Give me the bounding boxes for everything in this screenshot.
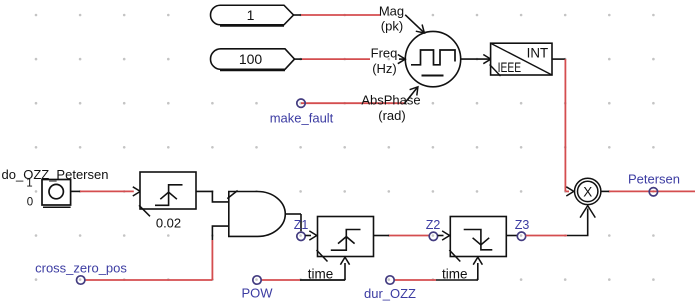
svg-text:time: time	[308, 266, 334, 281]
svg-text:make_fault: make_fault	[270, 111, 334, 126]
svg-text:Z3: Z3	[515, 218, 530, 232]
svg-text:IEEE: IEEE	[498, 59, 522, 75]
svg-text:(pk): (pk)	[381, 19, 403, 34]
svg-text:1: 1	[26, 178, 32, 190]
svg-text:do_OZZ_Petersen: do_OZZ_Petersen	[2, 167, 109, 182]
svg-text:POW: POW	[241, 286, 273, 301]
svg-text:(Hz): (Hz)	[372, 61, 397, 76]
svg-text:time: time	[442, 266, 468, 281]
svg-text:100: 100	[239, 51, 263, 67]
svg-text:(rad): (rad)	[378, 108, 405, 123]
svg-text:X: X	[583, 184, 592, 199]
svg-text:Petersen: Petersen	[628, 172, 680, 187]
svg-text:Z2: Z2	[426, 218, 441, 232]
svg-text:1: 1	[247, 7, 255, 23]
svg-text:0.02: 0.02	[156, 216, 181, 231]
svg-text:INT: INT	[527, 45, 549, 61]
svg-text:Mag: Mag	[379, 4, 404, 19]
svg-text:Z1: Z1	[294, 218, 309, 232]
svg-text:cross_zero_pos: cross_zero_pos	[35, 261, 127, 276]
svg-text:0: 0	[27, 197, 33, 209]
svg-text:dur_OZZ: dur_OZZ	[364, 286, 416, 301]
svg-text:Freq: Freq	[371, 46, 398, 61]
